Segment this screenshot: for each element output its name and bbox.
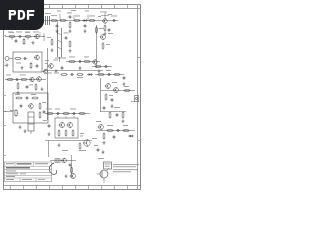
relay RL1	[28, 112, 34, 134]
connector J3	[131, 96, 139, 102]
resistor R4	[73, 16, 80, 22]
wire stubs U3	[58, 116, 74, 118]
transistor Q11	[28, 103, 34, 109]
PDF badge	[0, 0, 44, 30]
capacitor C10	[108, 28, 111, 32]
ground G9	[48, 132, 51, 136]
wire pwr bottom	[45, 140, 92, 142]
junction knot	[55, 57, 66, 62]
resistor R44	[71, 166, 73, 173]
wire stubs feed	[12, 32, 40, 40]
transistor Q18	[97, 168, 109, 183]
title block text row3	[6, 170, 16, 173]
fuse F1	[55, 159, 60, 162]
page frame right border	[137, 4, 141, 190]
resistor R17	[94, 66, 101, 68]
capacitor C30	[15, 39, 18, 43]
capacitor C15	[103, 106, 106, 110]
capacitor C5	[18, 35, 22, 38]
wire stub	[57, 21, 59, 29]
resistor R20	[123, 86, 130, 91]
page frame left border	[3, 4, 6, 190]
resistor R40	[79, 142, 81, 149]
transistor Q6	[105, 82, 117, 89]
wire bottom chain	[50, 160, 76, 162]
wire long mid	[44, 70, 100, 72]
capacitor C27	[116, 129, 120, 132]
capacitor C8	[61, 66, 64, 70]
ground G2	[79, 66, 82, 70]
resistor R5	[88, 16, 95, 22]
transistor Q14	[83, 138, 97, 147]
transistor Q13	[67, 122, 73, 128]
wire right h2	[101, 90, 136, 92]
capacitor C3	[84, 24, 87, 33]
diode D3	[128, 135, 134, 138]
wire right h3	[101, 111, 127, 113]
ground G4	[98, 69, 101, 73]
shielded cable W1	[58, 28, 62, 57]
resistor R3	[69, 21, 72, 32]
resistor R27	[20, 75, 28, 81]
resistor R22	[109, 111, 111, 118]
resistor R29	[35, 83, 37, 90]
capacitor C17	[23, 57, 27, 60]
capacitor C20	[26, 85, 33, 90]
transistor Q16	[61, 158, 67, 164]
transistor Q15	[96, 121, 103, 130]
resistor R13	[60, 74, 67, 76]
capacitor C2	[67, 13, 72, 19]
wire pwr top	[45, 113, 90, 115]
input jack J2	[5, 57, 13, 67]
capacitor C1	[56, 24, 59, 33]
capacitor C23	[43, 110, 46, 114]
resistor R41	[106, 125, 113, 131]
resistor R25	[16, 62, 32, 69]
resistor R9	[47, 37, 53, 46]
wire left chain	[5, 79, 46, 81]
capacitor C21	[25, 97, 29, 100]
wire feed left	[5, 36, 44, 38]
resistor R31	[31, 94, 39, 99]
resistor R6	[104, 24, 107, 35]
transistor Q8	[34, 55, 40, 61]
capacitor C12	[106, 70, 111, 76]
ground G6	[41, 87, 44, 91]
capacitor C29	[69, 163, 72, 167]
resistor R34	[46, 109, 54, 115]
label top specks	[57, 10, 89, 11]
title block text row5	[6, 175, 15, 178]
capacitor C31	[94, 145, 99, 152]
transistor Q4	[45, 60, 58, 69]
resistor R37	[58, 129, 60, 136]
title block text row1	[6, 163, 48, 164]
resistor R28	[17, 82, 20, 94]
label bt2	[98, 157, 104, 160]
wire drop bl	[48, 141, 50, 158]
label row under badge	[8, 31, 39, 34]
transistor Q10	[36, 76, 42, 82]
transistor Q3	[92, 59, 97, 64]
ground G3	[55, 69, 58, 73]
wire bottom drop	[71, 155, 73, 178]
note text block	[113, 164, 139, 172]
resistor R18	[97, 70, 104, 75]
resistor R23	[122, 111, 125, 122]
resistor R26	[6, 75, 14, 81]
node A	[43, 33, 44, 41]
resistor R35	[62, 113, 69, 115]
power cord loop	[49, 163, 56, 174]
wire left out	[4, 111, 13, 112]
transistor Q5	[100, 33, 113, 40]
wire right drop1	[96, 25, 98, 44]
pot VR1	[10, 109, 18, 117]
wire stubs above bus	[60, 14, 88, 21]
page frame bottom ruler	[3, 185, 141, 190]
capacitor C4	[111, 16, 117, 22]
capacitor C25	[70, 109, 76, 115]
resistor R43	[103, 132, 106, 144]
resistor R39	[72, 129, 74, 136]
resistor R30	[15, 94, 23, 99]
label net VCC	[45, 72, 59, 75]
resistor R45	[23, 38, 25, 45]
resistor R38	[65, 129, 67, 136]
transistor Q2	[34, 34, 39, 39]
capacitor C26	[43, 120, 50, 128]
wire mid bus	[66, 61, 100, 63]
resistor R2	[59, 20, 66, 22]
ground G13	[102, 150, 105, 154]
capacitor C11	[104, 65, 108, 68]
title block text row2	[6, 167, 30, 168]
wire right drop3	[100, 78, 102, 112]
wire right bus2	[95, 74, 124, 76]
wire top bus	[44, 20, 118, 22]
title block text row6	[6, 178, 45, 181]
transistor Q9	[29, 77, 34, 82]
capacitor C9	[70, 73, 74, 76]
ground G8	[24, 129, 27, 133]
capacitor C16	[114, 107, 120, 117]
resistor R19	[113, 74, 120, 76]
transistor Q12	[59, 122, 65, 128]
wire right drop2	[96, 44, 98, 68]
capacitor C13	[123, 76, 126, 86]
resistor R36	[78, 113, 85, 115]
resistor R24	[14, 58, 21, 60]
resistor R15	[96, 26, 104, 33]
capacitor C18	[36, 64, 39, 68]
resistor R11	[68, 57, 75, 63]
module box U2	[13, 93, 48, 123]
transistor Q17	[70, 173, 76, 179]
resistor R10	[69, 40, 72, 52]
diode D2	[87, 73, 93, 76]
capacitor C7	[78, 60, 82, 63]
transistor Q1	[98, 12, 112, 24]
resistor R32	[39, 102, 46, 110]
wire down center	[47, 48, 49, 120]
ground G10	[58, 143, 61, 147]
ground G12	[32, 41, 35, 45]
capacitor C14	[111, 98, 114, 108]
resistor R1	[50, 15, 57, 21]
module box U3	[55, 118, 78, 138]
capacitor C28	[113, 135, 116, 139]
capacitor C22	[20, 104, 23, 108]
resistor R16	[102, 42, 110, 49]
label U3 side	[80, 133, 84, 136]
ground G7	[19, 125, 22, 129]
capacitor C6	[64, 33, 69, 41]
resistor R42	[122, 125, 129, 131]
capacitor C19	[15, 78, 19, 81]
transistor Q19	[43, 69, 48, 74]
resistor R21	[105, 93, 113, 100]
module box U1	[13, 52, 42, 72]
wire bottom knot	[92, 66, 112, 68]
page frame top ruler	[3, 4, 141, 9]
diode D1	[82, 19, 88, 22]
ground G1	[51, 48, 54, 52]
resistor R8	[24, 32, 31, 37]
regulator U4	[104, 162, 112, 169]
capacitor C24	[55, 109, 60, 115]
resistor R14	[76, 74, 83, 78]
ground G5	[21, 66, 24, 70]
resistor R7	[8, 32, 15, 37]
resistor R33	[39, 111, 41, 118]
title block table	[5, 162, 52, 182]
transistor Q7	[113, 87, 119, 93]
connector J1	[45, 13, 51, 25]
title block text row4	[6, 172, 26, 175]
ground G11	[65, 174, 68, 178]
wire rm	[96, 130, 135, 132]
resistor R12	[83, 57, 90, 63]
label bt1	[62, 149, 86, 152]
